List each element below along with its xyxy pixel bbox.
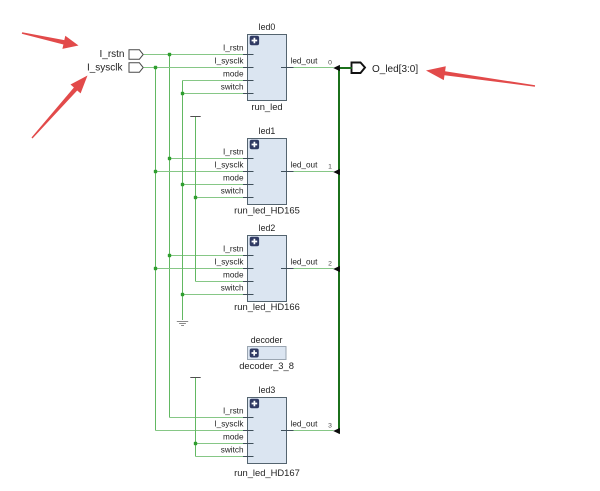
svg-text:2: 2 [328,261,332,268]
svg-text:led_out: led_out [291,56,319,65]
wire stub net 1 to led2 mode [196,281,244,283]
svg-text:3: 3 [328,423,332,430]
svg-text:I_sysclk: I_sysclk [214,160,244,169]
svg-text:I_rstn: I_rstn [223,406,244,415]
wire O_led[3:0] bus to output port [338,67,352,69]
svg-text:led_out: led_out [291,257,319,266]
unconnected stub tick 2 [190,377,200,379]
svg-text:I_rstn: I_rstn [99,49,124,60]
annotation arrow 2 (points at I_sysclk port) [32,76,88,139]
unconnected stub tick 1 [190,116,200,118]
wire O_led[3:0] bus vertical [338,67,340,434]
junction stub net 2 at led3 mode [194,442,197,445]
svg-text:I_sysclk: I_sysclk [214,257,244,266]
wire led0 led_out to O_led bus [294,67,334,69]
bus entry arrow bit 3 [333,428,340,434]
wire net I_rstn horizontal from port to led0 [144,54,243,56]
svg-text:mode: mode [223,69,244,78]
svg-text:led3: led3 [259,385,276,395]
wire led2 led_out to O_led bus [294,268,334,270]
svg-text:decoder_3_8: decoder_3_8 [239,360,294,371]
wire net I_sysclk horizontal from port to led0 [144,67,243,69]
svg-text:switch: switch [221,82,244,91]
svg-text:run_led_HD167: run_led_HD167 [234,467,300,478]
wire grounded net led0 switch [183,93,244,95]
svg-text:mode: mode [223,432,244,441]
junction net I_rstn at led1 [168,157,171,160]
ground symbol [177,322,188,326]
svg-text:I_sysclk: I_sysclk [214,419,244,428]
svg-text:run_led_HD166: run_led_HD166 [234,301,300,312]
bus entry arrow bit 0 [333,65,340,71]
wire stub net 2 to led3 mode [196,443,244,445]
wire net I_rstn to led2 [170,255,244,257]
module instance decoder (decoder_3_8) [239,335,294,371]
output port O_led[3:0] [352,63,419,76]
wire grounded net led2 switch [183,294,244,296]
wire stub net 2 to led3 switch [196,456,244,458]
wire net I_rstn to led3 [170,417,244,419]
annotation arrow 3 (points at O_led port) [426,66,535,87]
svg-text:I_rstn: I_rstn [223,43,244,52]
module instance led0 (run_led) [214,22,318,112]
module instance led3 (run_led_HD167) [214,385,318,478]
wire led1 led_out to O_led bus [294,171,334,173]
wire led3 led_out to O_led bus [294,430,334,432]
wire grounded net vertical trunk to ground [182,81,184,321]
wire grounded net led0 mode [183,80,244,82]
junction net I_sysclk at led2 [154,267,157,270]
wire net I_sysclk to led3 [156,430,244,432]
wire stub net 1 vertical [195,117,197,282]
module instance led1 (run_led_HD165) [214,126,318,216]
svg-text:switch: switch [221,445,244,454]
svg-text:0: 0 [328,60,332,67]
svg-text:led_out: led_out [291,160,319,169]
wire grounded net led1 mode [183,184,244,186]
svg-text:led_out: led_out [291,419,319,428]
svg-text:switch: switch [221,283,244,292]
junction grounded net at led2 switch [181,293,184,296]
junction grounded net at led0 switch [181,92,184,95]
input port I_sysclk [87,62,143,73]
svg-text:led1: led1 [259,126,276,136]
svg-text:I_rstn: I_rstn [223,147,244,156]
module instance led2 (run_led_HD166) [214,223,318,312]
annotation arrow 1 (points at I_rstn port) [22,32,79,49]
junction stub net 1 at led1 switch [194,196,197,199]
junction grounded net at led1 mode [181,183,184,186]
wire stub net 2 vertical [195,378,197,457]
svg-text:decoder: decoder [251,335,283,345]
wire net I_rstn to led1 [170,158,244,160]
junction net I_sysclk at led1 [154,170,157,173]
svg-text:O_led[3:0]: O_led[3:0] [372,64,418,75]
svg-text:I_rstn: I_rstn [223,244,244,253]
svg-text:run_led: run_led [251,101,282,112]
svg-text:I_sysclk: I_sysclk [214,56,244,65]
wire net I_rstn vertical trunk [169,55,171,418]
junction net I_sysclk at led0 [154,66,157,69]
wire net I_sysclk to led2 [156,268,244,270]
input port I_rstn [99,49,143,60]
wire net I_sysclk vertical trunk [155,68,157,431]
svg-text:mode: mode [223,270,244,279]
svg-text:run_led_HD165: run_led_HD165 [234,205,300,216]
svg-text:led2: led2 [259,223,276,233]
svg-text:mode: mode [223,173,244,182]
bus entry arrow bit 1 [333,169,340,175]
svg-text:switch: switch [221,186,244,195]
svg-text:1: 1 [328,164,332,171]
junction net I_rstn at led2 [168,254,171,257]
svg-text:I_sysclk: I_sysclk [87,62,124,73]
wire net I_sysclk to led1 [156,171,244,173]
wire stub net 1 to led1 switch [196,197,244,199]
svg-text:led0: led0 [259,22,276,32]
junction net I_rstn at led0 [168,53,171,56]
bus entry arrow bit 2 [333,266,340,272]
